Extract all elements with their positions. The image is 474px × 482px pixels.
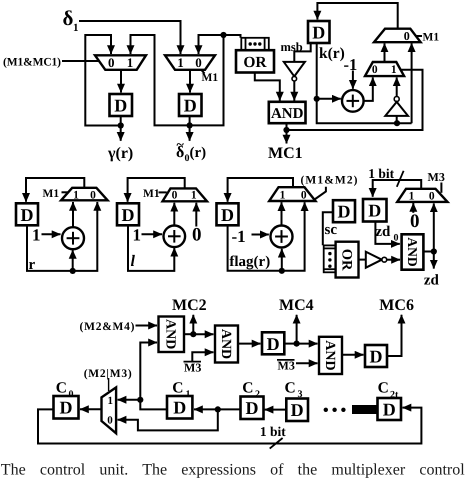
svg-text:1: 1 bbox=[280, 189, 286, 201]
svg-text:0: 0 bbox=[192, 225, 202, 246]
svg-text:D: D bbox=[312, 23, 325, 43]
svg-text:0: 0 bbox=[429, 190, 435, 202]
svg-text:OR: OR bbox=[243, 54, 267, 71]
svg-text:1: 1 bbox=[133, 226, 142, 245]
svg-text:0: 0 bbox=[410, 211, 420, 232]
svg-text:k(r): k(r) bbox=[319, 45, 345, 62]
svg-text:M1: M1 bbox=[423, 32, 440, 44]
svg-text:0: 0 bbox=[69, 389, 74, 400]
svg-text:D: D bbox=[246, 398, 259, 418]
svg-text:2: 2 bbox=[255, 389, 260, 400]
svg-text:1: 1 bbox=[127, 55, 134, 70]
svg-text:D: D bbox=[291, 400, 304, 420]
svg-text:r: r bbox=[29, 257, 36, 273]
svg-text:M1: M1 bbox=[43, 188, 60, 200]
svg-text:D: D bbox=[370, 347, 383, 367]
svg-text:OR: OR bbox=[338, 249, 354, 271]
svg-text:(r): (r) bbox=[190, 145, 207, 161]
svg-text:MC4: MC4 bbox=[279, 297, 314, 314]
svg-text:0: 0 bbox=[107, 414, 113, 426]
svg-text:D: D bbox=[184, 96, 197, 116]
svg-text:D: D bbox=[383, 400, 396, 420]
svg-text:(M1&MC1): (M1&MC1) bbox=[3, 57, 61, 69]
svg-text:0: 0 bbox=[394, 233, 399, 244]
svg-text:C: C bbox=[242, 380, 253, 397]
svg-text:0: 0 bbox=[172, 190, 178, 202]
svg-text:D: D bbox=[122, 205, 135, 225]
svg-text:0: 0 bbox=[90, 189, 96, 201]
svg-text:zd: zd bbox=[375, 224, 391, 240]
svg-text:flag(r): flag(r) bbox=[229, 254, 270, 270]
svg-text:C: C bbox=[378, 380, 389, 397]
svg-text:MC1: MC1 bbox=[268, 145, 303, 162]
svg-text:1: 1 bbox=[191, 190, 197, 202]
svg-text:M1: M1 bbox=[202, 72, 219, 84]
svg-text:1: 1 bbox=[186, 389, 191, 400]
svg-text:D: D bbox=[267, 334, 280, 354]
svg-text:-1: -1 bbox=[232, 227, 246, 246]
svg-text:sc: sc bbox=[325, 222, 338, 238]
svg-text:AND: AND bbox=[218, 329, 233, 359]
svg-text:M3: M3 bbox=[278, 359, 295, 373]
svg-text:1: 1 bbox=[73, 189, 79, 201]
svg-text:-1: -1 bbox=[344, 55, 358, 74]
svg-text:δ: δ bbox=[63, 6, 74, 30]
svg-text:zd: zd bbox=[424, 273, 440, 289]
svg-text:D: D bbox=[221, 205, 234, 225]
svg-text:0: 0 bbox=[372, 64, 378, 76]
svg-text:1: 1 bbox=[108, 395, 114, 407]
svg-text:0: 0 bbox=[108, 55, 115, 70]
svg-text:~: ~ bbox=[177, 138, 185, 153]
svg-text:D: D bbox=[173, 398, 186, 418]
svg-text:1: 1 bbox=[73, 22, 79, 34]
svg-text:(M2&M4): (M2&M4) bbox=[80, 321, 135, 333]
svg-text:C: C bbox=[172, 380, 183, 397]
svg-text:1: 1 bbox=[32, 226, 41, 245]
svg-text:D: D bbox=[21, 205, 34, 225]
svg-text:3: 3 bbox=[298, 389, 303, 400]
svg-text:0: 0 bbox=[301, 189, 307, 201]
svg-text:1: 1 bbox=[177, 55, 184, 70]
svg-text:1 bit: 1 bit bbox=[260, 424, 286, 439]
svg-text:1 bit: 1 bit bbox=[368, 166, 394, 181]
svg-text:C: C bbox=[56, 380, 67, 397]
svg-text:AND: AND bbox=[405, 237, 420, 266]
svg-text:M3: M3 bbox=[184, 361, 201, 375]
svg-text:l: l bbox=[131, 253, 136, 270]
svg-text:The control unit. The expressi: The control unit. The expressions of the… bbox=[1, 462, 465, 479]
svg-text:1: 1 bbox=[409, 190, 415, 202]
svg-text:D: D bbox=[338, 202, 351, 222]
svg-text:(M2|M3): (M2|M3) bbox=[84, 368, 132, 380]
svg-text:γ(r): γ(r) bbox=[107, 145, 133, 162]
svg-text:msb: msb bbox=[281, 40, 303, 54]
svg-text:D: D bbox=[368, 201, 381, 221]
svg-text:2t: 2t bbox=[390, 390, 399, 401]
svg-text:0: 0 bbox=[195, 55, 202, 70]
svg-text:MC2: MC2 bbox=[172, 297, 207, 314]
svg-text:AND: AND bbox=[271, 106, 304, 122]
svg-text:1: 1 bbox=[391, 64, 397, 76]
svg-text:AND: AND bbox=[163, 319, 178, 349]
svg-text:C: C bbox=[285, 380, 296, 397]
svg-text:(M1&M2): (M1&M2) bbox=[301, 175, 358, 187]
svg-text:D: D bbox=[114, 96, 127, 116]
svg-text:M3: M3 bbox=[428, 170, 445, 184]
svg-text:MC6: MC6 bbox=[379, 297, 414, 314]
svg-text:D: D bbox=[60, 398, 73, 418]
svg-text:M1: M1 bbox=[143, 188, 160, 200]
svg-text:0: 0 bbox=[404, 29, 410, 43]
svg-text:AND: AND bbox=[322, 340, 337, 370]
